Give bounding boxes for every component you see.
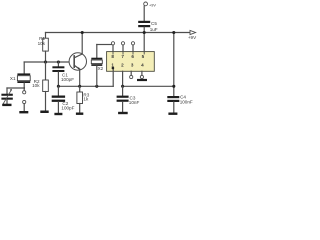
node junction collector rail — [81, 31, 84, 34]
node junction C5 rail pin5 — [143, 31, 146, 34]
wire emitter — [79, 69, 81, 86]
terminal pin6 — [131, 42, 134, 45]
transistor T1 — [69, 53, 86, 70]
node junction C1/base — [57, 60, 60, 63]
terminal pin4 — [141, 71, 143, 75]
svg-text:10k: 10k — [38, 41, 46, 46]
crystal X2 — [96, 45, 98, 58]
wire base node — [24, 61, 74, 63]
svg-text:1: 1 — [111, 62, 114, 67]
capacitor C5 — [144, 2, 148, 6]
svg-text:100pF: 100pF — [61, 77, 74, 82]
svg-text:10nF: 10nF — [129, 100, 140, 105]
power arrow +9V — [190, 30, 196, 34]
ground R3 — [76, 113, 83, 115]
svg-text:+9V: +9V — [188, 35, 197, 40]
wire pin2 — [122, 71, 124, 86]
svg-text:2: 2 — [121, 62, 124, 67]
svg-text:1uF: 1uF — [150, 27, 158, 32]
ground pin4 jumper — [137, 79, 147, 81]
svg-text:C5: C5 — [151, 21, 157, 26]
capacitor C2 — [57, 86, 59, 95]
svg-text:1k: 1k — [83, 96, 89, 101]
wire +9V top rail — [46, 32, 191, 34]
svg-text:X1: X1 — [10, 76, 16, 81]
ground C3 — [118, 112, 128, 114]
terminal pin7 — [121, 42, 124, 45]
svg-text:5: 5 — [142, 54, 145, 59]
IC U1 — [107, 52, 155, 72]
wire pin1 — [112, 68, 114, 86]
node junction X2 — [95, 85, 98, 88]
wire right supply drop — [173, 33, 175, 97]
terminal pin8 — [111, 42, 114, 45]
svg-text:3: 3 — [131, 62, 134, 67]
capacitor C1 — [57, 62, 59, 66]
capacitor C3 — [122, 86, 124, 95]
ground trimmer — [2, 104, 11, 106]
svg-text:8: 8 — [111, 54, 114, 59]
resistor R3 — [79, 86, 81, 92]
svg-text:7: 7 — [121, 54, 124, 59]
node pin1 — [112, 67, 115, 70]
wire collector — [81, 33, 83, 55]
svg-text:6: 6 — [131, 54, 134, 59]
node junction pin2/C3 — [121, 85, 124, 88]
resistor R1 — [45, 33, 47, 39]
trimmer capacitor — [6, 88, 8, 94]
node junction bottom rail right — [172, 85, 175, 88]
node junction rail right — [172, 31, 175, 34]
svg-text:X2: X2 — [98, 66, 104, 71]
svg-text:4: 4 — [141, 62, 144, 67]
terminal pin3 — [130, 71, 132, 75]
wire supply bottom rail — [123, 85, 174, 87]
ground C4 — [168, 113, 177, 115]
svg-text:+9V: +9V — [149, 3, 156, 7]
node junction X1/trimmer — [23, 87, 25, 89]
ground R2 — [40, 111, 48, 114]
node junction R1/R2/base — [44, 60, 47, 63]
svg-text:100nF: 100nF — [180, 99, 193, 104]
resistor R2 — [45, 62, 47, 80]
ground C2 — [54, 113, 62, 115]
ground X1 jumper — [19, 111, 28, 113]
jumper terminal lower — [23, 100, 26, 103]
wire trimmer branch — [7, 87, 24, 89]
svg-text:100pF: 100pF — [61, 105, 74, 110]
node junction C1/C2 — [57, 85, 60, 88]
jumper terminal upper — [23, 91, 26, 94]
svg-text:10k: 10k — [32, 83, 40, 88]
node junction emitter/R3 — [78, 85, 81, 88]
crystal X1 — [23, 62, 25, 73]
wire emitter rail — [58, 85, 113, 87]
capacitor C4 — [167, 96, 179, 98]
